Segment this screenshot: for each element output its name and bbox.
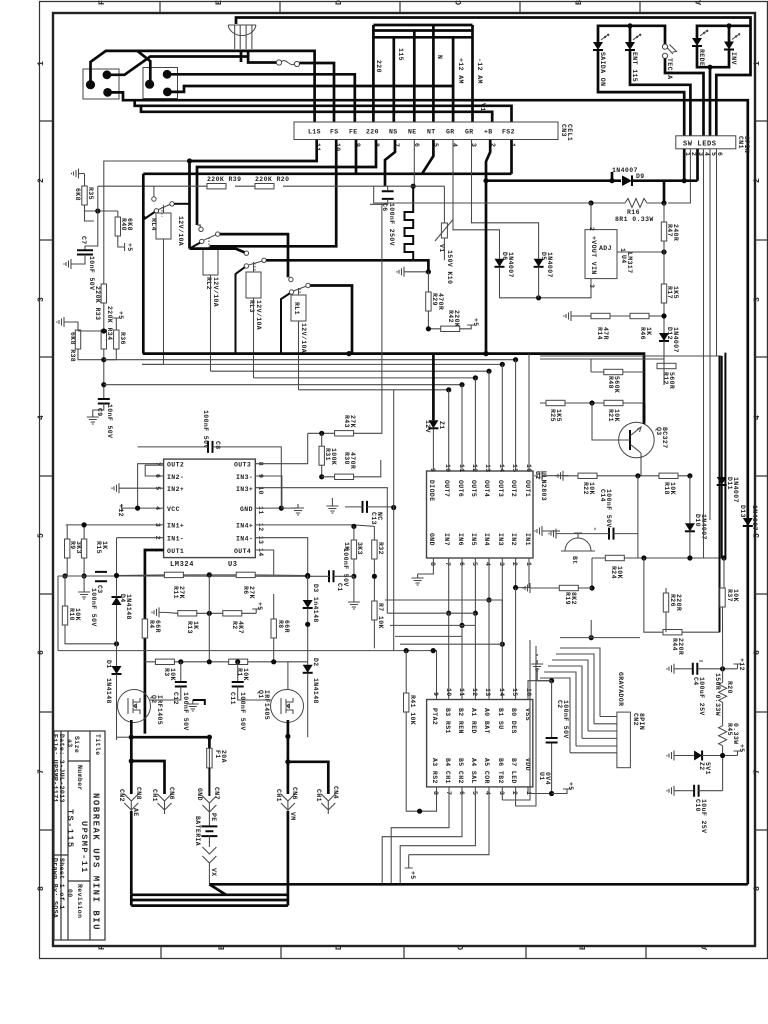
- resistor R19: [559, 585, 578, 590]
- wire RL3 coil top: [253, 262, 255, 272]
- svg-text:220: 220: [375, 60, 382, 73]
- wire U2 in6: [461, 558, 463, 625]
- wire VX to bus: [208, 863, 210, 884]
- svg-text:R6: R6: [242, 586, 249, 595]
- svg-text:B2 REN: B2 REN: [457, 708, 464, 734]
- wire R29 to R42: [428, 311, 440, 329]
- wire U4 in: [590, 203, 592, 230]
- junction in3: [500, 642, 505, 647]
- resistor R18: [659, 473, 678, 478]
- wire IN3- right: [255, 476, 282, 508]
- wire R25 left: [540, 402, 604, 404]
- svg-text:14: 14: [498, 688, 505, 697]
- capacitor C4: [680, 668, 693, 670]
- plug P2 pin R1: [163, 70, 172, 79]
- svg-text:12V/10A: 12V/10A: [212, 277, 219, 307]
- svg-text:OUT3: OUT3: [497, 480, 504, 497]
- svg-text:10K: 10K: [169, 668, 176, 681]
- svg-text:D10: D10: [694, 514, 701, 527]
- wire R16 row: [591, 202, 664, 204]
- svg-text:R29: R29: [431, 293, 438, 306]
- resistor R8 on out4 line: [273, 594, 275, 619]
- svg-text:8PIN: 8PIN: [743, 136, 750, 153]
- chevron CN4: [321, 794, 335, 814]
- thick 353 extension: [560, 354, 644, 423]
- svg-text:IN3-: IN3-: [236, 474, 253, 481]
- svg-text:R21: R21: [607, 409, 614, 422]
- wire row613: [165, 611, 256, 614]
- outer border left: [39, 2, 41, 959]
- svg-text:B: B: [575, 0, 584, 5]
- svg-text:3: 3: [37, 296, 46, 302]
- wire IN4+ net: [255, 525, 374, 540]
- wire branch to plug2: [137, 51, 150, 84]
- resistor R6: [236, 572, 255, 577]
- svg-text:12: 12: [471, 688, 478, 697]
- junction D5 bottom: [536, 295, 541, 300]
- relay RL1 switch: [289, 277, 293, 281]
- svg-text:+12: +12: [117, 504, 124, 517]
- svg-text:9: 9: [432, 692, 439, 696]
- connector CN3 box: [294, 122, 558, 140]
- bus 650 net: [58, 651, 437, 700]
- svg-text:R43: R43: [343, 415, 350, 428]
- svg-text:12V/10A: 12V/10A: [300, 323, 307, 353]
- svg-text:2: 2: [588, 227, 595, 231]
- svg-text:13: 13: [257, 536, 264, 545]
- wire RL2 switch out: [220, 234, 288, 277]
- svg-text:8K2: 8K2: [570, 592, 577, 605]
- wire R12: [663, 341, 665, 385]
- svg-text:1N4007: 1N4007: [732, 477, 739, 503]
- capacitor C1: [329, 570, 334, 582]
- wire lower ladder line: [135, 100, 512, 122]
- svg-text:C14: C14: [599, 489, 606, 502]
- svg-text:Revision: Revision: [76, 884, 83, 918]
- junction Z2 rail: [720, 753, 725, 758]
- svg-text:CH1: CH1: [315, 789, 322, 802]
- svg-text:B3 RS1: B3 RS1: [444, 708, 451, 734]
- svg-text:R13: R13: [186, 621, 193, 634]
- svg-text:VX: VX: [210, 868, 217, 877]
- wire pin1 drop: [510, 140, 513, 174]
- resistor R4 on thick line: [142, 619, 147, 638]
- wire pin10 drop: [211, 140, 336, 249]
- right thin pair down: [704, 430, 711, 558]
- junction in5: [473, 611, 478, 616]
- svg-text:R31: R31: [324, 448, 331, 461]
- svg-text:C: C: [457, 944, 466, 950]
- svg-text:8: 8: [37, 885, 46, 891]
- thick row 737: [131, 736, 209, 739]
- svg-text:B7 LED: B7 LED: [510, 758, 517, 784]
- diode D13: [743, 518, 753, 526]
- svg-text:REDE: REDE: [698, 49, 705, 66]
- wire gnd row right: [548, 475, 569, 477]
- resistor R41: [405, 651, 407, 693]
- ground center power: [187, 700, 199, 711]
- wire CN1 pin5 thin down: [709, 149, 711, 360]
- svg-text:B5 CH2: B5 CH2: [457, 758, 464, 784]
- wire Z1 to pin9: [432, 428, 434, 471]
- wire CN1 pin1 down: [683, 149, 686, 181]
- svg-text:13: 13: [484, 688, 491, 697]
- svg-text:6K8 R38: 6K8 R38: [69, 332, 76, 362]
- wire R42 to +5: [460, 325, 476, 329]
- relay RL3 switch: [244, 251, 248, 255]
- svg-text:VM: VM: [289, 812, 296, 821]
- svg-text:TECLA: TECLA: [666, 58, 673, 80]
- wire RL3 common: [236, 267, 245, 353]
- svg-text:CN1: CN1: [737, 136, 744, 149]
- svg-text:R9: R9: [69, 541, 76, 550]
- ground mid: [326, 502, 338, 513]
- relay RL1 coil: [291, 295, 306, 321]
- svg-text:F: F: [98, 944, 107, 950]
- svg-text:NE: NE: [408, 129, 417, 136]
- resistor R16 zigzag: [625, 199, 647, 208]
- wire row 576: [58, 575, 117, 577]
- svg-text:C1: C1: [336, 583, 343, 592]
- svg-text:GND: GND: [240, 506, 253, 513]
- svg-text:CH1: CH1: [275, 789, 282, 802]
- bottom bus diagonal: [209, 884, 226, 895]
- junction C1 left: [305, 574, 310, 579]
- svg-text:GND: GND: [196, 788, 203, 801]
- svg-text:470R: 470R: [437, 293, 444, 310]
- svg-text:IN2: IN2: [510, 533, 517, 546]
- svg-text:D4: D4: [119, 594, 126, 603]
- svg-text:7: 7: [444, 562, 451, 566]
- junction row475 b: [687, 473, 692, 478]
- resistor R30: [335, 474, 354, 479]
- resistor R13: [178, 611, 197, 616]
- IC U1 box: [427, 700, 533, 787]
- svg-text:R22: R22: [582, 482, 589, 495]
- wire row558 down: [591, 558, 593, 588]
- ground IN2+: [112, 483, 125, 493]
- power flag +5 row613: [252, 609, 260, 613]
- svg-text:Number: Number: [76, 765, 83, 791]
- svg-text:10nF 50V: 10nF 50V: [106, 404, 113, 438]
- svg-text:C7: C7: [80, 236, 87, 245]
- svg-text:4K7: 4K7: [237, 621, 244, 634]
- ground C10: [667, 786, 680, 796]
- junction C2 top: [549, 678, 554, 683]
- resistor R42: [441, 326, 460, 331]
- svg-text:IN2+: IN2+: [167, 486, 184, 493]
- wire Q3 collector: [643, 403, 646, 424]
- svg-text:FE: FE: [349, 129, 358, 136]
- row 661 R1: [229, 659, 248, 664]
- svg-text:4: 4: [484, 791, 491, 795]
- resistor R48: [604, 369, 623, 374]
- svg-text:+B: +B: [484, 129, 493, 136]
- svg-text:6: 6: [37, 649, 46, 655]
- wire D9 up branch: [611, 172, 614, 181]
- wire pin5 drop: [422, 140, 433, 174]
- wire transformer left drop: [240, 50, 243, 63]
- svg-text:4: 4: [753, 414, 762, 420]
- junction row661 d: [235, 659, 240, 664]
- svg-text:4: 4: [37, 414, 46, 420]
- svg-text:R18: R18: [663, 482, 670, 495]
- wire R10: [58, 576, 117, 651]
- wire D11 bottom: [721, 485, 723, 558]
- svg-text:2: 2: [690, 152, 697, 156]
- resistor R29: [427, 272, 429, 292]
- svg-text:C10: C10: [694, 799, 701, 812]
- svg-text:Q2: Q2: [150, 695, 157, 704]
- wire U2 pin10 up: [448, 390, 450, 471]
- diode D1 down: [112, 666, 122, 674]
- junction bus650 R41: [404, 648, 409, 653]
- svg-text:CN7: CN7: [213, 787, 220, 800]
- capacitor C14: [609, 528, 614, 540]
- left column R33: [101, 284, 106, 303]
- svg-text:R41 10K: R41 10K: [409, 695, 416, 725]
- svg-text:F: F: [98, 0, 107, 5]
- svg-text:IN1-: IN1-: [167, 536, 184, 543]
- power flag +5 R40: [124, 243, 126, 251]
- svg-text:RL1: RL1: [293, 302, 300, 315]
- junction IN4+: [351, 524, 356, 529]
- svg-text:+5: +5: [117, 311, 124, 320]
- U1 bottom staircase pin6: [382, 787, 462, 884]
- wire D4 chain: [116, 538, 118, 666]
- junction C2 bottom: [549, 791, 554, 796]
- resistor R40: [115, 217, 120, 236]
- svg-text:R16: R16: [627, 209, 640, 216]
- transformer winding lines: [235, 25, 252, 49]
- resistor R24: [605, 555, 624, 560]
- capacitor C6: [387, 186, 389, 191]
- junction R35 row: [95, 208, 100, 213]
- svg-text:5: 5: [471, 562, 478, 566]
- svg-text:IN5: IN5: [470, 533, 477, 546]
- svg-text:A5 COR: A5 COR: [483, 758, 490, 784]
- svg-text:File: UPSMP-1171: File: UPSMP-1171: [52, 734, 59, 803]
- svg-text:R17: R17: [666, 286, 673, 299]
- resistor R14: [591, 313, 610, 318]
- wire D9 rail: [486, 179, 621, 182]
- ground row475: [556, 471, 569, 481]
- IC U4 LM317 box: [585, 230, 617, 279]
- svg-text:10nF 50V: 10nF 50V: [88, 256, 95, 290]
- wire fuse to FS pin: [300, 63, 335, 122]
- row 661 R3: [155, 659, 174, 664]
- svg-text:R1: R1: [236, 668, 243, 677]
- wire LED group top: [598, 26, 665, 44]
- junction Q1 branch2: [285, 759, 290, 764]
- svg-text:A: A: [701, 944, 710, 950]
- wire IN3+ right: [255, 488, 387, 614]
- wire RL1 coil bottom: [298, 321, 300, 390]
- svg-text:INV: INV: [730, 52, 737, 65]
- svg-text:A: A: [695, 0, 704, 5]
- svg-text:100nF 250V: 100nF 250V: [388, 203, 395, 246]
- svg-text:IN3+: IN3+: [236, 486, 253, 493]
- right vertical bus from CN1 pin4: [704, 360, 711, 430]
- ground Z2: [667, 751, 680, 761]
- svg-text:GR: GR: [465, 129, 474, 136]
- svg-text:+5: +5: [738, 744, 745, 753]
- svg-text:SW LEDS: SW LEDS: [683, 141, 717, 149]
- wire RL4 coil top: [163, 205, 165, 213]
- junction row613: [207, 611, 212, 616]
- outer border right: [766, 2, 768, 959]
- wire R32 bottom: [373, 559, 375, 601]
- svg-text:1K5: 1K5: [672, 286, 679, 299]
- wire R19: [536, 587, 592, 589]
- svg-text:00: 00: [66, 889, 73, 898]
- zener Z1: [432, 354, 435, 421]
- thick corner down to LM zone: [142, 174, 145, 354]
- svg-text:CN8: CN8: [135, 787, 142, 800]
- svg-text:2: 2: [37, 177, 46, 183]
- svg-text:B4 CH1: B4 CH1: [444, 758, 451, 784]
- junction row475 a: [635, 473, 640, 478]
- wire plug1 aux diag: [107, 57, 248, 75]
- wire pin8 drop: [197, 140, 376, 225]
- wire bottom ladder line: [141, 106, 492, 122]
- svg-text:14: 14: [257, 548, 264, 557]
- staircase net c: [390, 625, 475, 636]
- svg-text:R36: R36: [119, 332, 126, 345]
- resistor R20 220K: [255, 184, 274, 189]
- wire VCC: [122, 507, 164, 509]
- svg-text:8: 8: [429, 562, 436, 566]
- junction left col a: [101, 357, 106, 362]
- ground R6: [348, 598, 360, 609]
- resistor R10: [62, 606, 67, 625]
- wire pin11 branch: [188, 161, 191, 249]
- svg-text:IN7: IN7: [443, 533, 450, 546]
- svg-text:+5: +5: [409, 871, 416, 880]
- resistor R32: [372, 540, 377, 559]
- diode D5: [534, 259, 544, 267]
- staircase net e: [400, 644, 502, 699]
- LED ENT 115: [625, 34, 641, 50]
- svg-text:OUT3: OUT3: [234, 462, 251, 469]
- svg-text:6: 6: [716, 152, 723, 156]
- ground C3: [78, 588, 90, 599]
- capacitor C7: [85, 211, 98, 250]
- wire OUT1 thick: [145, 550, 164, 734]
- junction 737 left: [129, 735, 134, 740]
- wire U2 pin13 up: [488, 371, 490, 471]
- bottom bus main: [209, 883, 747, 886]
- svg-text:GR: GR: [446, 129, 455, 136]
- plug P2 pin L: [145, 80, 154, 89]
- svg-text:U4: U4: [620, 255, 627, 264]
- title block outline: [54, 731, 105, 940]
- junction C4 rail: [720, 666, 725, 671]
- junction in4: [486, 597, 491, 602]
- svg-text:10K: 10K: [669, 482, 676, 495]
- LED SAIDA ON: [593, 34, 609, 50]
- svg-text:NS: NS: [389, 129, 398, 136]
- junction R16 right: [661, 200, 666, 205]
- wire RL2 coil bottom: [210, 275, 212, 371]
- U1 bottom staircase pin7: [391, 787, 449, 884]
- svg-text:IN2-: IN2-: [167, 474, 184, 481]
- svg-text:1: 1: [37, 60, 46, 66]
- svg-text:IN4+: IN4+: [236, 523, 253, 530]
- resistor R7: [372, 601, 377, 620]
- ground mid: [397, 267, 410, 277]
- power flag +5 right: [734, 751, 742, 756]
- top long wire: [236, 18, 751, 136]
- svg-text:Q1: Q1: [257, 690, 264, 699]
- resistor R26: [665, 588, 667, 593]
- svg-text:1K: 1K: [645, 327, 652, 336]
- svg-text:D6: D6: [501, 252, 508, 261]
- svg-text:6: 6: [753, 649, 762, 655]
- svg-text:OUT7: OUT7: [443, 480, 450, 497]
- svg-text:8R1 0.33W: 8R1 0.33W: [615, 216, 654, 223]
- svg-text:1N4148: 1N4148: [125, 594, 132, 620]
- wire REDE INV join: [697, 46, 729, 136]
- svg-text:10K: 10K: [74, 608, 81, 621]
- svg-text:1N4148: 1N4148: [105, 678, 112, 704]
- svg-text:5: 5: [37, 532, 46, 538]
- ground buzzer: [549, 529, 562, 539]
- wire Q2 bottom thick: [130, 720, 133, 794]
- svg-text:5: 5: [710, 152, 717, 156]
- wire Q1 bottom thick: [287, 720, 290, 794]
- wire C4 to rail: [697, 668, 737, 670]
- wire GND pin: [255, 507, 281, 509]
- svg-text:4: 4: [484, 562, 491, 566]
- wire RL4 switch stub: [153, 186, 155, 197]
- svg-text:14: 14: [498, 464, 505, 473]
- wire Z2 to rail: [702, 755, 737, 757]
- svg-text:Z1: Z1: [438, 421, 445, 430]
- wire U4 adj: [617, 251, 664, 253]
- capacitor C11: [237, 662, 239, 682]
- svg-text:Size: Size: [73, 736, 80, 753]
- wire RL2 common: [190, 243, 200, 249]
- svg-text:470R: 470R: [349, 452, 356, 469]
- svg-text:A0 BAT: A0 BAT: [483, 708, 490, 734]
- svg-text:CEL1: CEL1: [566, 124, 573, 141]
- svg-text:R8: R8: [277, 620, 284, 629]
- svg-text:11: 11: [257, 506, 264, 515]
- svg-text:220K R33: 220K R33: [94, 286, 101, 320]
- wire D3 chain: [307, 576, 309, 665]
- junction left col b: [101, 382, 106, 387]
- svg-text:NT: NT: [427, 129, 436, 136]
- plug P1 pin R2: [103, 88, 112, 97]
- svg-text:NC: NC: [376, 512, 383, 521]
- svg-text:R3: R3: [163, 668, 170, 677]
- wire Q1 col down: [287, 811, 290, 906]
- svg-text:240R: 240R: [672, 224, 679, 241]
- svg-text:C: C: [455, 0, 464, 5]
- junction D4 bottom: [114, 641, 119, 646]
- svg-text:OUT1: OUT1: [167, 548, 184, 555]
- U1 bottom staircase pin5: [400, 787, 475, 884]
- capacitor C2: [546, 738, 558, 743]
- staircase net d: [395, 613, 462, 699]
- wire U2 pin11 up: [461, 385, 463, 471]
- bottom zone ticks: [161, 946, 646, 959]
- wire D2 bottom: [307, 673, 309, 737]
- svg-text:3: 3: [498, 562, 505, 566]
- IC U3 LM324 box: [164, 459, 256, 557]
- diode D2: [303, 665, 313, 673]
